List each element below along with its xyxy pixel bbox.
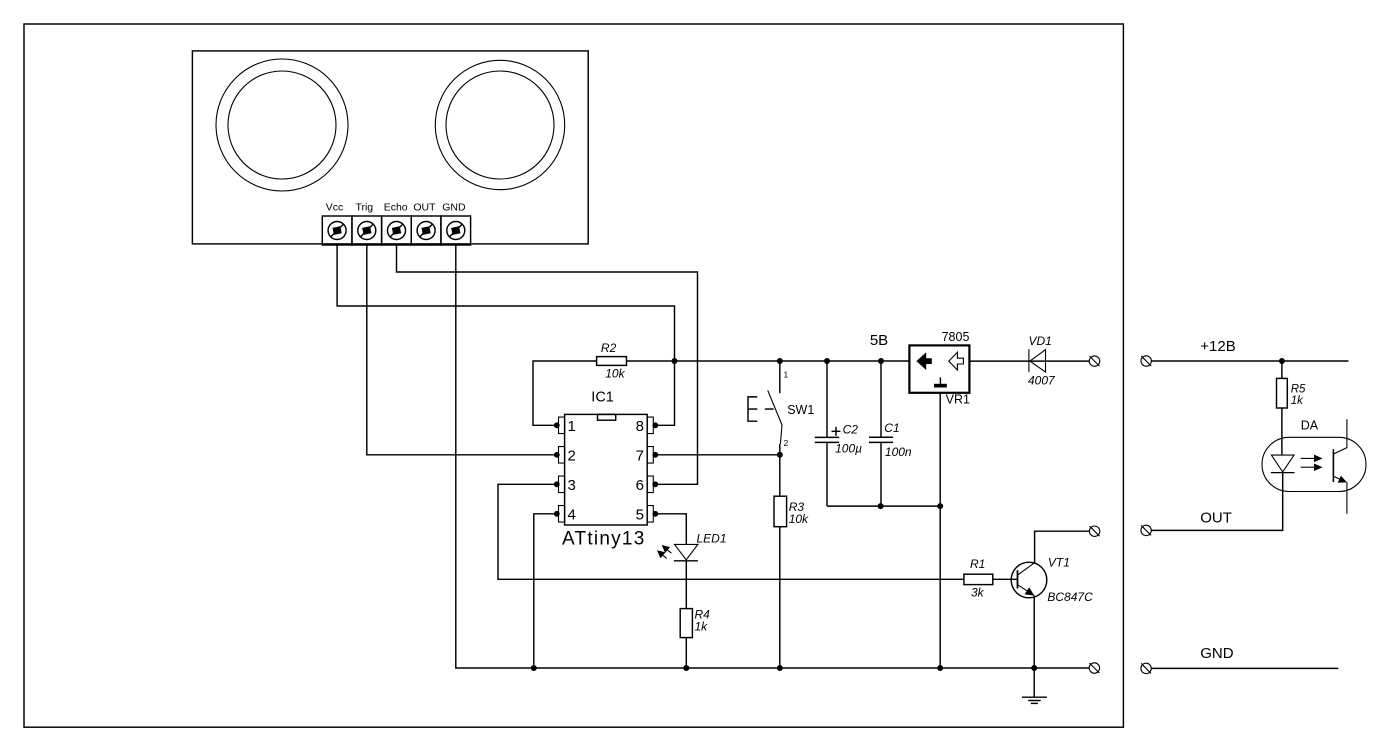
optocoupler phototransistor <box>1333 419 1347 514</box>
terminal GND outside <box>1141 663 1151 673</box>
wire 5V rail to regulator <box>675 360 910 362</box>
optocoupler light arrows <box>1301 456 1322 471</box>
svg-text:Vcc: Vcc <box>326 202 344 214</box>
capacitor C2 <box>815 358 841 506</box>
wire R2 right to 5V rail <box>627 360 675 362</box>
switch SW1 <box>748 358 783 458</box>
wire junction to IC pin8 <box>655 361 674 425</box>
IC1 pin 6 stub <box>647 476 658 493</box>
svg-text:IC1: IC1 <box>591 390 614 406</box>
ultrasonic sensor module HC-SR04 outline <box>192 51 588 244</box>
wire R2 left to IC pin1 <box>533 361 597 425</box>
svg-text:SW1: SW1 <box>787 403 814 417</box>
svg-text:Echo: Echo <box>384 202 408 214</box>
wire capacitor ground bus <box>827 505 940 507</box>
svg-text:C1: C1 <box>884 421 899 435</box>
terminal Echo screw <box>382 216 412 245</box>
wire LED1 to R4 <box>685 561 687 609</box>
terminal OUT screw <box>411 216 441 245</box>
wire Trig from module to IC pin2 <box>367 245 557 455</box>
svg-text:7: 7 <box>636 448 644 465</box>
left transducer <box>216 59 348 191</box>
terminal OUT outside <box>1141 525 1151 535</box>
resistor R4 <box>680 608 710 638</box>
wire VR1 input from terminal <box>969 360 1089 362</box>
svg-text:2: 2 <box>568 448 576 465</box>
svg-text:7805: 7805 <box>942 330 970 344</box>
LED LED1 <box>658 544 698 560</box>
svg-text:5: 5 <box>636 507 644 524</box>
svg-text:GND: GND <box>1200 645 1234 662</box>
svg-text:DA: DA <box>1301 419 1319 433</box>
svg-text:100n: 100n <box>885 445 912 459</box>
terminal GND screw <box>441 216 471 245</box>
svg-text:Trig: Trig <box>355 202 373 214</box>
IC1 pin 4 stub <box>554 506 565 523</box>
IC1 pin 5 stub <box>647 506 658 523</box>
wire VR1 ground down <box>939 393 941 668</box>
right transducer <box>435 60 564 189</box>
svg-text:6: 6 <box>636 477 644 494</box>
svg-text:2: 2 <box>784 438 789 448</box>
node R4 ground <box>683 665 689 671</box>
wire VT1 collector to OUT terminal <box>1035 531 1090 563</box>
IC1 pin 8 stub <box>647 417 658 434</box>
svg-text:1: 1 <box>568 418 576 435</box>
terminal GND inside <box>1089 663 1099 673</box>
transistor VT1 <box>1011 562 1047 598</box>
svg-text:1k: 1k <box>695 620 709 634</box>
svg-text:3k: 3k <box>971 586 985 600</box>
svg-text:10k: 10k <box>605 366 625 380</box>
svg-text:R1: R1 <box>970 557 985 571</box>
terminal 12V input inside <box>1089 356 1099 366</box>
wire +12V line <box>1151 360 1348 362</box>
node C1 ground <box>878 503 884 509</box>
terminal Trig screw <box>352 216 382 245</box>
wire Vcc from module to 5V junction <box>337 245 674 361</box>
IC1 pin 2 stub <box>554 447 565 464</box>
wire VT1 emitter to ground rail <box>1033 595 1035 668</box>
optocoupler DA body <box>1262 437 1366 491</box>
svg-text:4: 4 <box>568 507 576 524</box>
resistor R2 <box>597 341 627 380</box>
svg-text:VR1: VR1 <box>946 392 970 406</box>
terminal OUT inside <box>1089 526 1099 536</box>
diode VD1 <box>1029 349 1046 372</box>
node R5 top <box>1279 358 1285 364</box>
wire GND line <box>1151 667 1338 669</box>
ground <box>1022 668 1047 703</box>
resistor R1 <box>964 557 993 600</box>
svg-text:R2: R2 <box>601 341 617 355</box>
svg-text:VD1: VD1 <box>1029 334 1052 348</box>
svg-text:VT1: VT1 <box>1048 555 1070 569</box>
resistor R5 <box>1277 361 1307 408</box>
svg-text:BC847C: BC847C <box>1047 590 1093 604</box>
svg-text:ATtiny13: ATtiny13 <box>562 528 646 549</box>
svg-text:100µ: 100µ <box>835 442 862 456</box>
svg-text:8: 8 <box>636 418 644 435</box>
voltage regulator VR1 7805 <box>909 330 970 406</box>
wire GND from module to ground rail <box>456 245 1089 668</box>
node VR1 ground on rail <box>937 665 943 671</box>
terminal Vcc screw <box>322 216 352 245</box>
node pin4 on ground rail <box>531 665 537 671</box>
wire IC pin4 to ground rail <box>534 514 557 668</box>
wire R1 to VT1 base <box>993 578 1018 580</box>
svg-text:OUT: OUT <box>1200 509 1232 526</box>
wire R5 to optocoupler LED <box>1281 408 1283 455</box>
svg-text:OUT: OUT <box>413 202 436 214</box>
optocoupler LED <box>1271 455 1295 473</box>
svg-text:1k: 1k <box>1291 395 1304 407</box>
node 5V junction at R2 <box>672 358 678 364</box>
svg-text:5В: 5В <box>870 332 888 349</box>
svg-text:C2: C2 <box>843 423 859 437</box>
svg-text:GND: GND <box>442 202 466 214</box>
svg-text:R5: R5 <box>1291 383 1306 395</box>
terminal +12V outside <box>1141 356 1151 366</box>
svg-text:3: 3 <box>568 477 576 494</box>
wire IC pin7 to switch bottom <box>655 454 780 456</box>
svg-text:+12В: +12В <box>1200 338 1235 355</box>
IC1 pin 7 stub <box>647 447 658 464</box>
IC1 pin 3 stub <box>554 476 565 493</box>
wire R4 to ground rail <box>685 638 687 668</box>
IC U1 microcontroller IC1 ATtiny13 body <box>565 414 648 525</box>
wire optocoupler LED cathode to OUT <box>1151 472 1282 531</box>
svg-text:10k: 10k <box>789 512 809 526</box>
wire IC pin5 to LED1 <box>655 514 686 545</box>
svg-text:LED1: LED1 <box>697 531 727 545</box>
wire Echo from module to IC pin6 <box>397 245 698 484</box>
capacitor C1 <box>869 358 893 506</box>
wire IC pin3 to R1 <box>498 484 964 579</box>
resistor R3 <box>774 455 809 671</box>
node emitter ground <box>1031 665 1037 671</box>
node VR1 ground <box>937 503 943 509</box>
svg-text:4007: 4007 <box>1028 373 1056 387</box>
svg-text:1: 1 <box>784 370 789 380</box>
IC1 pin 1 stub <box>554 417 565 434</box>
